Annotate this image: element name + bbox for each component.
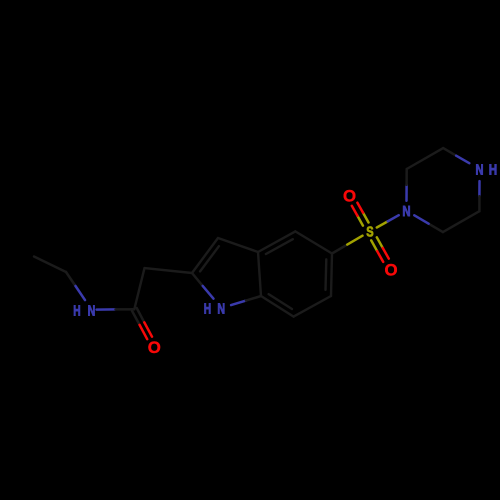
double bond S=O upper (half 1) [363,213,369,223]
double bond S=O upper (half 2) [352,206,358,216]
svg-text:N: N [88,302,96,319]
aromatic bond C3a=C4 [258,231,295,252]
bond NH-C5 piperazine (half 1) [478,181,481,196]
bond S-N piperazine (half 1) [377,221,388,227]
double bond S=O lower (half 2) [383,248,389,259]
bond C3-C3a [218,238,258,252]
svg-text:H: H [73,302,80,319]
bond N1-C2 piperazine (half 2) [405,169,408,185]
svg-text:H: H [489,162,497,179]
aromatic bond C5=C6 inner line [324,259,327,290]
svg-text:S: S [366,224,373,241]
bond CH2-C2 indole [145,268,193,273]
bond C(=O)-CH2 [134,268,144,309]
bond CH2-N amide (half 1) [66,272,76,286]
svg-text:H: H [204,300,211,317]
bond N1-C7a indole (half 1) [231,301,246,306]
double bond C=O (half 1) [137,308,145,322]
bond N1-C7a indole (half 2) [246,296,261,301]
bond N1-C2 piperazine (half 1) [405,185,408,201]
aromatic bond C5=C6 [331,254,332,297]
svg-text:O: O [343,186,356,205]
bond C4-C5 [295,231,332,253]
svg-text:O: O [148,338,161,357]
double bond S=O lower (half 1) [377,237,383,248]
double bond C=O (half 1) [132,311,140,325]
double bond S=O lower (half 2) [377,251,383,262]
aromatic bond C3a=C4 inner line [266,239,293,254]
bond S-N piperazine (half 2) [388,215,399,221]
bond C2-C3 piperazine [407,148,444,169]
double bond S=O upper (half 1) [357,216,363,226]
bond C2-N1 indole (half 2) [203,286,214,299]
bond C2-N1 indole (half 1) [192,273,203,286]
aromatic bond C7=C7a [261,296,294,317]
bond C5-S (half 2) [347,236,362,245]
bond C3-NH piperazine (half 1) [443,148,456,156]
svg-text:O: O [384,260,397,279]
double bond S=O lower (half 1) [371,240,377,251]
aromatic bond C2=C3 [192,238,218,273]
bond C5-S (half 1) [332,245,347,254]
bond C6-N1 piperazine (half 2) [414,215,428,223]
svg-text:N: N [402,203,410,220]
bond C6-C7 [294,296,331,317]
bond C5-C6 piperazine [443,211,480,232]
bond CH2-N amide (half 2) [76,286,86,300]
bond N-C carbonyl (half 2) [116,308,135,311]
double bond C=O (half 2) [144,322,152,336]
bond ethyl CH3-CH2 [34,257,66,273]
bond C6-N1 piperazine (half 1) [429,224,443,232]
aromatic bond C7=C7a inner line [269,294,292,309]
double bond C=O (half 2) [140,325,148,339]
svg-text:N: N [217,300,225,317]
aromatic bond C2=C3 inner line [200,246,219,271]
svg-text:N: N [476,162,484,179]
bond NH-C5 piperazine (half 2) [478,196,481,211]
bond C3a-C7a [258,252,261,296]
bond N-C carbonyl (half 1) [97,308,116,311]
double bond S=O upper (half 2) [357,203,363,213]
bond C3-NH piperazine (half 2) [456,156,469,164]
